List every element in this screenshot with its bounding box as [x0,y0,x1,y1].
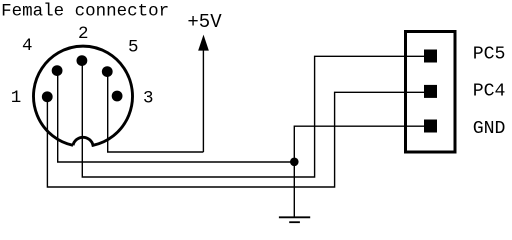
header pin square PC5 [424,50,437,63]
pin 5 [102,66,113,77]
svg-text:3: 3 [143,89,154,109]
junction dot [290,158,299,167]
svg-text:PC4: PC4 [473,82,506,102]
wire pin 4 to junction [58,71,295,162]
header pin square PC4 [424,85,437,98]
connector J1 body (DIN-5 female: circle with key notch) [34,46,133,145]
+5V supply arrow stem [202,49,204,152]
svg-text:4: 4 [22,36,33,56]
ground symbol bar 2 [289,221,300,223]
wire pin 5 to +5V [108,72,204,152]
svg-text:Female connector: Female connector [1,2,169,22]
wire junction to GND pin [294,126,424,162]
ground symbol bar 1 [279,216,310,218]
pin 2 [77,55,88,66]
pin 1 [42,91,53,102]
+5V supply arrow head [198,35,209,51]
svg-text:2: 2 [78,24,89,44]
ground symbol stem [293,162,295,218]
svg-text:GND: GND [473,119,506,139]
svg-text:1: 1 [11,88,22,108]
pin 3 [112,91,123,102]
svg-text:PC5: PC5 [473,45,506,65]
header pin square GND [424,120,437,133]
wire pin 1 to PC4 [47,92,424,187]
svg-text:+5V: +5V [187,11,222,33]
pin 4 [52,65,63,76]
header connector U1 outline [406,32,456,153]
svg-text:5: 5 [128,38,139,58]
wire pin 2 to PC5 [82,56,424,177]
